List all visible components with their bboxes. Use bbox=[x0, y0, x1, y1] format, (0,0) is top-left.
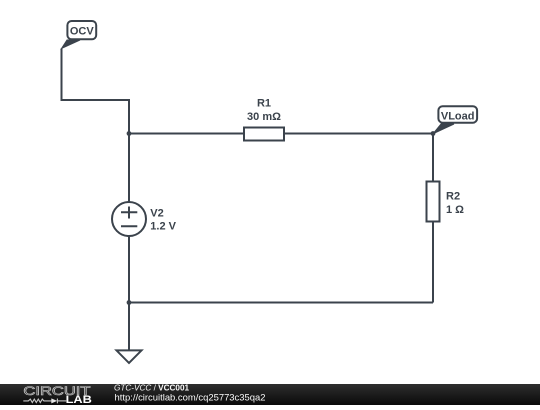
wire node to R1 left bbox=[129, 133, 244, 135]
wire from OCV flag down bbox=[62, 49, 130, 101]
svg-text:GTC-VCC / VCC001: GTC-VCC / VCC001 bbox=[114, 384, 190, 393]
svg-text:http://circuitlab.com/cq25773c: http://circuitlab.com/cq25773c35qa2 bbox=[115, 392, 266, 402]
resistor R2 bbox=[427, 182, 440, 222]
node junction at VLoad bbox=[431, 131, 436, 136]
svg-text:30 mΩ: 30 mΩ bbox=[247, 111, 281, 123]
logo resistor-diode glyph bbox=[23, 398, 66, 403]
svg-text:OCV: OCV bbox=[70, 26, 95, 38]
wire bottom node to ground bbox=[128, 303, 130, 351]
svg-text:1.2 V: 1.2 V bbox=[150, 221, 176, 233]
wire left vertical to V2 top bbox=[128, 99, 130, 202]
node junction at R1 branch bbox=[127, 131, 132, 136]
flag OCV bbox=[62, 21, 97, 49]
resistor R1 bbox=[244, 128, 284, 141]
ground bbox=[117, 350, 142, 363]
svg-text:R1: R1 bbox=[257, 97, 271, 109]
logo CIRCUIT outline text bbox=[23, 385, 90, 398]
svg-text:VLoad: VLoad bbox=[441, 110, 475, 122]
wire VLoad node down to R2 top bbox=[432, 134, 434, 182]
svg-text:R2: R2 bbox=[446, 191, 460, 203]
wire bottom horizontal bbox=[129, 302, 433, 304]
svg-text:LAB: LAB bbox=[66, 393, 93, 405]
footer bar bbox=[0, 384, 540, 405]
flag VLoad bbox=[433, 106, 477, 134]
svg-text:1 Ω: 1 Ω bbox=[446, 204, 464, 216]
wire R2 bottom down bbox=[432, 222, 434, 303]
logo LAB bbox=[66, 393, 93, 406]
wire V2 bottom to bottom node bbox=[128, 236, 130, 303]
svg-text:V2: V2 bbox=[150, 207, 163, 219]
wire R1 right to VLoad node bbox=[284, 133, 433, 135]
node junction at bottom bbox=[127, 300, 132, 305]
voltage source V2 bbox=[112, 202, 146, 236]
